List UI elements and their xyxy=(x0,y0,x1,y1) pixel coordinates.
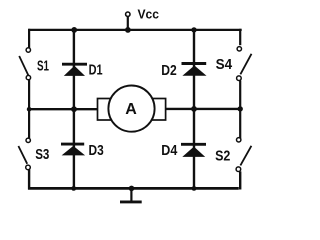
svg-text:S2: S2 xyxy=(215,148,230,165)
svg-text:Vcc: Vcc xyxy=(138,7,160,22)
wire left rail middle segment (S1 to S3 through motor node) xyxy=(28,79,30,138)
junction motor right lead x right rail xyxy=(238,106,243,111)
svg-text:S1: S1 xyxy=(37,58,49,75)
wire motor left lead (node A-left) xyxy=(28,108,98,110)
wire left rail lower segment (S3 to bottom rail) xyxy=(28,170,30,190)
junction motor left lead x left rail xyxy=(27,107,32,112)
svg-text:S4: S4 xyxy=(216,56,233,73)
switch S4 xyxy=(237,47,252,81)
wire top rail (Vcc bus) xyxy=(28,29,241,31)
svg-text:D1: D1 xyxy=(89,61,103,78)
wire bottom rail (ground bus) xyxy=(28,187,239,190)
wire right rail lower segment (S2 to bottom rail) xyxy=(239,171,241,189)
wire right rail middle segment (S4 to S2 through motor node) xyxy=(239,81,241,140)
svg-text:D4: D4 xyxy=(161,142,178,159)
ground symbol xyxy=(120,188,142,202)
junction bottom rail x inner-right rail xyxy=(192,186,197,191)
junction top rail x Vcc tap xyxy=(125,27,131,33)
motor M right brush xyxy=(151,99,166,121)
junction top rail x inner-right rail xyxy=(191,27,196,32)
wire left rail upper segment (top rail to S1) xyxy=(28,29,30,48)
svg-text:D2: D2 xyxy=(161,62,177,79)
wire right rail upper segment (top rail to S4) xyxy=(239,29,241,45)
junction bottom rail x inner-left rail xyxy=(71,186,76,191)
diode D4 (cathode bar up) xyxy=(181,144,206,157)
svg-text:S3: S3 xyxy=(35,146,49,163)
junction top rail x inner-left rail xyxy=(71,27,77,33)
wire inner-left rail (D1/D3 branch) xyxy=(73,29,75,190)
motor M left brush xyxy=(98,99,113,121)
diode D2 (cathode bar up) xyxy=(182,64,207,76)
switch S1 xyxy=(19,48,30,80)
svg-text:A: A xyxy=(125,101,137,118)
junction motor right lead x inner-right rail xyxy=(191,106,197,112)
junction bottom rail x ground tap xyxy=(129,186,135,192)
diode D1 (cathode bar up) xyxy=(62,64,87,76)
junction motor left lead x inner-left rail xyxy=(71,106,77,112)
switch S2 xyxy=(236,138,251,172)
svg-text:D3: D3 xyxy=(89,142,104,159)
wire inner-right rail (D2/D4 branch) xyxy=(193,29,195,190)
wire motor right lead (node A-right) xyxy=(165,108,241,110)
switch S3 xyxy=(18,138,30,170)
Vcc terminal circle and stub xyxy=(126,12,130,31)
diode D3 (cathode bar up) xyxy=(61,144,85,155)
motor M armature circle xyxy=(108,86,154,132)
